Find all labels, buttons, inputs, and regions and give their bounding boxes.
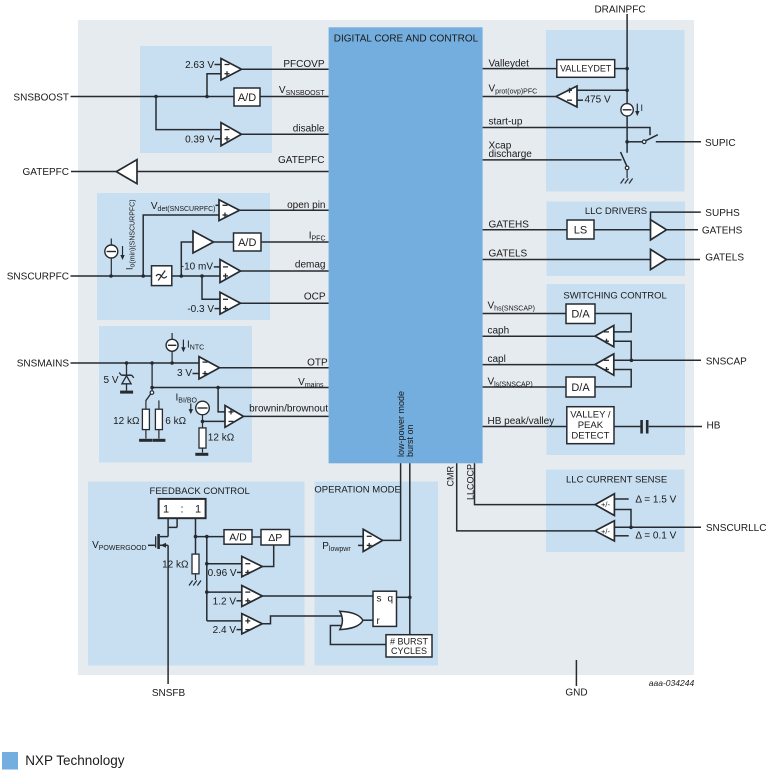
- svg-text:s: s: [377, 594, 382, 605]
- svg-text:DIGITAL CORE AND CONTROL: DIGITAL CORE AND CONTROL: [334, 34, 479, 45]
- svg-text:SWITCHING CONTROL: SWITCHING CONTROL: [563, 290, 666, 301]
- svg-text:LLC CURRENT SENSE: LLC CURRENT SENSE: [566, 475, 667, 486]
- svg-text:brownin/brownout: brownin/brownout: [249, 404, 328, 415]
- svg-text:+/-: +/-: [601, 500, 610, 509]
- svg-text:HB: HB: [707, 420, 721, 431]
- svg-text:HB peak/valley: HB peak/valley: [488, 416, 555, 427]
- svg-text:Δ = 1.5 V: Δ = 1.5 V: [635, 494, 676, 505]
- svg-text:VALLEYDET: VALLEYDET: [560, 64, 612, 74]
- svg-text:3 V: 3 V: [177, 368, 192, 379]
- svg-text:CYCLES: CYCLES: [391, 646, 427, 656]
- svg-text:q: q: [388, 594, 394, 605]
- svg-text:LLC DRIVERS: LLC DRIVERS: [585, 206, 647, 217]
- svg-text:SNSMAINS: SNSMAINS: [17, 359, 70, 370]
- svg-text:open pin: open pin: [287, 200, 325, 211]
- svg-text:2.4 V: 2.4 V: [213, 625, 237, 636]
- svg-text:NXP Technology: NXP Technology: [25, 753, 125, 768]
- svg-text:GATEPFC: GATEPFC: [278, 155, 324, 166]
- svg-text:# BURST: # BURST: [390, 636, 429, 646]
- svg-text:0.96 V: 0.96 V: [208, 568, 237, 579]
- svg-text:6 kΩ: 6 kΩ: [165, 416, 186, 427]
- svg-text:SNSFB: SNSFB: [152, 688, 186, 699]
- svg-text:LLCOCP: LLCOCP: [466, 464, 476, 500]
- svg-text:start-up: start-up: [489, 117, 523, 128]
- svg-text:OPERATION MODE: OPERATION MODE: [314, 484, 400, 495]
- svg-text:D/A: D/A: [571, 309, 590, 321]
- svg-text:SNSCAP: SNSCAP: [706, 356, 747, 367]
- svg-text:burst on: burst on: [405, 424, 415, 457]
- svg-text:aaa-034244: aaa-034244: [649, 678, 695, 688]
- svg-text:I: I: [641, 103, 644, 113]
- svg-text:Δ = 0.1 V: Δ = 0.1 V: [635, 530, 676, 541]
- svg-text:GND: GND: [565, 688, 587, 699]
- svg-text:Valleydet: Valleydet: [489, 59, 530, 70]
- svg-text:-0.3 V: -0.3 V: [187, 304, 214, 315]
- svg-text:1: 1: [163, 504, 169, 516]
- svg-text:5 V: 5 V: [103, 375, 118, 386]
- svg-text:SUPIC: SUPIC: [705, 138, 736, 149]
- svg-text:GATEHS: GATEHS: [702, 226, 743, 237]
- svg-text:ΔP: ΔP: [268, 532, 282, 544]
- svg-text:+/-: +/-: [601, 527, 610, 536]
- svg-text:2.63 V: 2.63 V: [185, 60, 214, 71]
- svg-text:SNSCURPFC: SNSCURPFC: [7, 271, 69, 282]
- svg-text:GATELS: GATELS: [489, 249, 528, 260]
- svg-text:demag: demag: [295, 260, 326, 271]
- svg-text:SNSBOOST: SNSBOOST: [13, 93, 69, 104]
- svg-text:discharge: discharge: [489, 149, 533, 160]
- svg-text:SNSCURLLC: SNSCURLLC: [706, 523, 767, 534]
- svg-text:12 kΩ: 12 kΩ: [162, 560, 189, 571]
- svg-text:VALLEY /: VALLEY /: [570, 410, 611, 421]
- svg-text:DETECT: DETECT: [571, 431, 609, 442]
- svg-text:LS: LS: [574, 224, 587, 236]
- svg-text:A/D: A/D: [229, 532, 247, 544]
- svg-text:FEEDBACK CONTROL: FEEDBACK CONTROL: [150, 486, 250, 497]
- svg-text:12 kΩ: 12 kΩ: [113, 416, 140, 427]
- svg-text:capl: capl: [488, 354, 506, 365]
- svg-text:GATELS: GATELS: [705, 252, 744, 263]
- svg-text:475 V: 475 V: [585, 95, 611, 106]
- svg-text:-10 mV: -10 mV: [181, 262, 214, 273]
- svg-text:CMR: CMR: [446, 466, 456, 487]
- svg-text:1: 1: [195, 504, 201, 516]
- svg-text:OTP: OTP: [307, 358, 328, 369]
- svg-text:PFCOVP: PFCOVP: [283, 59, 324, 70]
- svg-text:12 kΩ: 12 kΩ: [208, 433, 235, 444]
- svg-text:DRAINPFC: DRAINPFC: [594, 5, 645, 16]
- svg-text:SUPHS: SUPHS: [705, 208, 740, 219]
- svg-text:D/A: D/A: [571, 382, 590, 394]
- svg-text:OCP: OCP: [304, 292, 326, 303]
- svg-text:caph: caph: [488, 325, 510, 336]
- svg-text::: :: [180, 504, 183, 516]
- svg-text:disable: disable: [293, 124, 325, 135]
- svg-text:GATEHS: GATEHS: [489, 219, 530, 230]
- svg-text:GATEPFC: GATEPFC: [23, 167, 69, 178]
- svg-text:1.2 V: 1.2 V: [213, 596, 237, 607]
- svg-text:0.39 V: 0.39 V: [185, 134, 214, 145]
- svg-text:PEAK: PEAK: [578, 420, 604, 431]
- svg-text:A/D: A/D: [238, 237, 256, 249]
- svg-text:A/D: A/D: [238, 92, 256, 104]
